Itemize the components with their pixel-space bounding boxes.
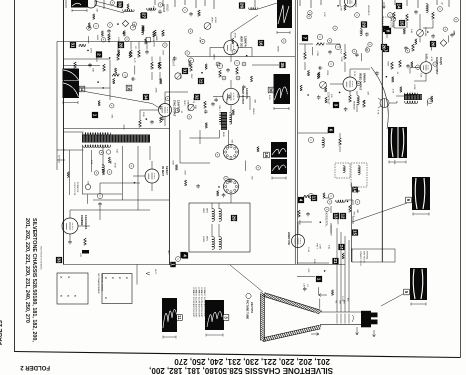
- resistor z83: [344, 5, 346, 11]
- node dot z10: [123, 33, 125, 35]
- ref circle z218: [175, 108, 179, 112]
- ref circle z118: [101, 38, 105, 42]
- ref circle z328: [368, 42, 372, 46]
- wcallout 34 near W2: [79, 86, 85, 92]
- capacitor z712: [222, 193, 226, 197]
- svg-text:2.2M: 2.2M: [340, 6, 342, 11]
- node dot z36: [363, 100, 365, 102]
- svg-text:HV RECT: HV RECT: [161, 166, 163, 177]
- callout 22v: [198, 78, 204, 84]
- cap C2: [145, 50, 149, 54]
- tube V9 sound if: [345, 0, 356, 7]
- svg-text:YEL: YEL: [335, 300, 337, 303]
- callout 13r: [383, 46, 389, 52]
- callout 27: [141, 12, 147, 18]
- capacitor z215: [214, 98, 218, 102]
- svg-text:4.7K: 4.7K: [376, 110, 378, 115]
- coil L6 in box: [358, 166, 360, 175]
- resistor R2 horiz: [79, 44, 86, 47]
- svg-text:CONNECT SCOPE ACROSS VERT: CONNECT SCOPE ACROSS VERT: [192, 287, 195, 318]
- callout 30: [117, 1, 123, 7]
- svg-text:100K: 100K: [160, 79, 162, 85]
- svg-text:36: 36: [269, 88, 274, 93]
- svg-text:24: 24: [339, 244, 344, 250]
- coil L3 vertical: [142, 26, 144, 35]
- hv rect tube V5: [145, 169, 159, 183]
- resistor R10b: [162, 30, 165, 36]
- pointer to W10: [381, 294, 403, 306]
- resistor z14: [129, 52, 131, 57]
- svg-text:R-75: R-75: [133, 58, 135, 64]
- waveform photo W9: [205, 300, 224, 330]
- resistor R6: [74, 62, 77, 68]
- svg-text:+422: +422: [167, 250, 169, 254]
- capacitor z321: [355, 53, 359, 57]
- resistor R10: [159, 62, 162, 69]
- svg-text:R-52: R-52: [353, 72, 355, 78]
- resistor R16: [84, 238, 87, 245]
- ref circle 16b: [108, 23, 113, 28]
- svg-text:HEIGHT: HEIGHT: [172, 57, 175, 67]
- svg-text:2.2M: 2.2M: [340, 57, 342, 62]
- callout 32b: [194, 94, 200, 100]
- callout 15s: [399, 20, 405, 26]
- ref circle z414: [391, 17, 395, 21]
- svg-text:6: 6: [328, 129, 333, 132]
- diamond test point TP1: [122, 20, 128, 26]
- CRT funnel bottom edge: [263, 325, 321, 342]
- waveform W6 bracket: [389, 161, 406, 164]
- svg-text:.0047: .0047: [236, 93, 238, 99]
- resistor R27: [406, 14, 409, 21]
- waveform photo W4: [274, 74, 291, 104]
- wire stub z1011: [134, 66, 136, 75]
- resistor R28: [432, 12, 435, 19]
- resistor z12: [101, 31, 103, 36]
- svg-text:220K: 220K: [275, 96, 277, 102]
- waveform W3 bracket: [277, 31, 290, 34]
- resistor Rvh: [198, 10, 201, 16]
- noise gate box: [146, 38, 151, 43]
- resistor z106: [115, 68, 117, 74]
- callout 29y: [231, 215, 237, 221]
- svg-text:6AQ5: 6AQ5: [439, 57, 443, 65]
- capacitor z227: [173, 56, 177, 60]
- svg-text:GRN: GRN: [339, 300, 341, 305]
- wire stub z96: [318, 287, 320, 294]
- ref circle p1: [129, 164, 134, 169]
- section divider double x296: [295, 0, 297, 264]
- CRT neck inner: [337, 314, 354, 324]
- svg-text:1: 1: [92, 114, 97, 117]
- callout 14s: [396, 3, 402, 9]
- wire b+ bus: [350, 183, 352, 262]
- svg-text:BLUE: BLUE: [222, 132, 224, 138]
- pilot lamp: [85, 184, 90, 189]
- wire y60 seg: [64, 58, 111, 60]
- vert output transformer T1: [221, 112, 227, 130]
- ref circle z715: [256, 166, 260, 170]
- svg-text:C-81: C-81: [303, 283, 305, 287]
- waveform W8 bracket: [163, 336, 176, 339]
- callout 24h: [338, 244, 344, 250]
- svg-text:1B3GT: 1B3GT: [165, 166, 169, 175]
- waveform W7 bracket: [413, 213, 429, 216]
- wire tube V2 leads: [140, 92, 188, 126]
- callout 2: [96, 51, 102, 57]
- wire video mesh: [299, 44, 345, 72]
- capacitor C16 black: [82, 250, 89, 254]
- wcallout 5 near W10: [404, 289, 410, 295]
- ref circle z711: [215, 153, 219, 157]
- svg-text:8: 8: [385, 30, 390, 33]
- resistor R25: [363, 100, 366, 107]
- wire mesh sync: [64, 57, 161, 101]
- resistor R23: [304, 52, 307, 59]
- resistor R26: [393, 12, 396, 19]
- node dot z239: [201, 72, 203, 74]
- resistor R29: [412, 44, 415, 51]
- svg-text:CONNECT SCOPE ACROSS VERT: CONNECT SCOPE ACROSS VERT: [197, 287, 200, 318]
- svg-text:35: 35: [280, 62, 285, 68]
- callout 4m: [182, 252, 188, 258]
- resistor z713: [175, 165, 177, 171]
- svg-text:4.7K: 4.7K: [95, 57, 97, 62]
- svg-text:33K: 33K: [92, 68, 94, 72]
- cap C4: [131, 77, 135, 81]
- callout 8s: [385, 28, 391, 34]
- svg-text:C-41: C-41: [410, 29, 412, 35]
- capacitor z97: [303, 287, 307, 291]
- wire speaker: [389, 96, 404, 103]
- waveform photo W2 upper: [63, 69, 80, 81]
- ref circle z21: [188, 29, 192, 33]
- top wire stubs: [66, 0, 449, 9]
- damper tube V6: [62, 218, 78, 234]
- svg-text:HOLD: HOLD: [214, 17, 216, 23]
- svg-text:R-52: R-52: [268, 95, 270, 101]
- coil Lp: [102, 165, 104, 172]
- coil L5 in box: [343, 166, 345, 173]
- svg-text:VERT: VERT: [183, 100, 185, 106]
- yoke horiz coils: [212, 237, 214, 250]
- resistor R9b: [154, 30, 157, 36]
- node dot z111: [109, 57, 111, 59]
- svg-text:33K: 33K: [254, 99, 256, 103]
- waveform W5 bracket: [272, 177, 286, 180]
- section divider vertical x169: [169, 41, 171, 265]
- CRT base pins: [371, 313, 378, 318]
- wire diag W3: [231, 3, 277, 33]
- bottom page border: [15, 352, 461, 358]
- cap C14: [404, 46, 408, 50]
- wire top box edge y65: [64, 64, 101, 66]
- ref circle 12h: [355, 200, 360, 205]
- ref circle s2: [388, 13, 393, 18]
- callout 4r: [383, 26, 389, 32]
- svg-text:201, 202, 220, 221, 230, 231,: 201, 202, 220, 221, 230, 231, 240, 250, …: [174, 357, 330, 366]
- audio output transformer T3: [404, 94, 422, 100]
- volume control: [417, 30, 424, 37]
- svg-text:14: 14: [396, 3, 401, 9]
- ref circle 33h: [308, 137, 313, 142]
- resistor R5: [117, 53, 120, 60]
- resistor R9: [151, 62, 154, 69]
- capacitor z42: [431, 34, 435, 38]
- resistor z412: [400, 87, 402, 93]
- wire bus y41: [57, 41, 170, 43]
- wcallout 16 near W5: [264, 152, 270, 158]
- svg-text:28: 28: [118, 42, 123, 48]
- ref circle 22: [217, 63, 222, 68]
- svg-text:11: 11: [311, 196, 316, 201]
- cap Cvh: [189, 12, 193, 16]
- callout 33b: [56, 257, 62, 263]
- svg-text:INTERLOCK: INTERLOCK: [76, 182, 78, 193]
- resistor z1017: [98, 100, 100, 106]
- callout 7v: [302, 35, 308, 41]
- svg-text:C-28: C-28: [426, 54, 428, 60]
- ref circle z417: [405, 49, 409, 53]
- waveform photo W7: [412, 177, 430, 210]
- tube V7 horiz osc: [292, 235, 305, 248]
- resistor z127: [118, 50, 120, 55]
- resistor z49: [431, 96, 433, 102]
- svg-text:TERMINAL BOARD: TERMINAL BOARD: [100, 274, 103, 292]
- svg-text:31: 31: [182, 68, 187, 74]
- callout 1c: [316, 276, 322, 282]
- resistor z66: [67, 172, 69, 178]
- control circle height: [175, 73, 181, 79]
- wire to W4: [252, 64, 279, 66]
- svg-text:1MEG: 1MEG: [213, 54, 215, 60]
- svg-text:4: 4: [182, 254, 187, 257]
- svg-text:33K: 33K: [179, 75, 181, 79]
- CRT wires down: [337, 228, 349, 312]
- resistor z117: [142, 26, 144, 31]
- capacitor z329: [344, 107, 348, 111]
- resistor R24: [349, 95, 352, 102]
- node dot z323: [339, 92, 341, 94]
- svg-text:1MEG: 1MEG: [277, 46, 279, 52]
- svg-text:-5-28-: -5-28-: [393, 160, 395, 166]
- svg-text:C-28: C-28: [341, 296, 343, 302]
- callout 28: [118, 42, 124, 48]
- speaker SP1: [380, 99, 389, 108]
- node dot z1013: [146, 118, 148, 120]
- ref circle s1: [355, 13, 360, 18]
- svg-text:330K: 330K: [142, 112, 144, 117]
- svg-text:34: 34: [80, 87, 85, 92]
- svg-text:21: 21: [333, 258, 338, 264]
- node dot z124: [117, 23, 119, 25]
- resistor z222: [205, 64, 207, 70]
- svg-text:PIN 7: PIN 7: [218, 106, 220, 112]
- wire x210 seg: [209, 48, 211, 57]
- resistor z76: [185, 180, 187, 186]
- svg-text:4.7K: 4.7K: [392, 89, 394, 94]
- svg-text:10K: 10K: [194, 105, 196, 109]
- wcallout 36 near W4: [268, 87, 274, 93]
- coil L10: [426, 4, 428, 13]
- resistor z431: [411, 62, 413, 68]
- sidebar title line: [24, 218, 37, 342]
- ref circle 23v: [328, 61, 333, 66]
- resistor z217: [232, 109, 234, 115]
- yoke box: [189, 203, 250, 252]
- wire 117 stub: [136, 265, 138, 285]
- callout 6h: [328, 127, 334, 133]
- ref circle z123: [163, 43, 167, 47]
- coil L4: [322, 138, 324, 148]
- ref circle z315: [328, 39, 332, 43]
- svg-text:3: 3: [333, 104, 338, 107]
- svg-text:PIN 7: PIN 7: [352, 212, 354, 218]
- ref circle 25: [234, 60, 239, 65]
- svg-text:PIN 7: PIN 7: [315, 243, 317, 249]
- node dot z421: [386, 76, 388, 78]
- wire stub z424: [387, 61, 389, 66]
- cap C8: [68, 240, 72, 244]
- ref circle z53: [325, 207, 329, 211]
- tube socket S2: [224, 179, 239, 194]
- svg-text:117V 60 CYCLE: 117V 60 CYCLE: [73, 182, 75, 196]
- svg-text:4: 4: [298, 199, 303, 202]
- svg-text:15: 15: [352, 230, 357, 236]
- capacitor z74: [228, 179, 232, 183]
- ref circle z219: [232, 50, 236, 54]
- svg-text:31: 31: [70, 42, 75, 48]
- callout small a: [352, 187, 358, 193]
- wire stub z47: [386, 31, 388, 38]
- capacitor z100: [159, 105, 163, 109]
- wire x100: [100, 183, 140, 220]
- svg-text:117V: 117V: [154, 269, 156, 274]
- resistor z317: [307, 70, 309, 76]
- ref circle s3: [438, 7, 443, 12]
- yoke vert coils: [212, 209, 214, 222]
- svg-text:R-52: R-52: [340, 49, 342, 55]
- wire lower box bottom y264: [64, 264, 346, 266]
- node dot A: [108, 41, 110, 43]
- wire stub z59: [337, 212, 339, 224]
- ref circle 5: [130, 25, 135, 30]
- wire stub z73: [244, 161, 246, 171]
- CRT funnel top edge: [262, 293, 322, 314]
- wire stub z65: [86, 195, 88, 204]
- callout 31: [70, 42, 76, 48]
- CRT base black: [361, 311, 371, 328]
- white box 18: [126, 85, 132, 91]
- tube V3 vert osc: [224, 40, 238, 54]
- svg-text:1: 1: [316, 278, 321, 281]
- resistor z122: [140, 13, 142, 18]
- resistor z311: [318, 72, 320, 78]
- capacitor C1: [107, 29, 111, 33]
- svg-text:4.7K: 4.7K: [313, 259, 315, 264]
- svg-text:7: 7: [302, 37, 307, 40]
- wire stub z93: [319, 299, 321, 309]
- tube V2 sync sep: [159, 104, 172, 117]
- coil L2b: [249, 8, 258, 10]
- pin circle d: [236, 76, 240, 80]
- resistor R17: [339, 138, 342, 145]
- schematic left border: [63, 0, 65, 265]
- svg-text:.0047: .0047: [183, 170, 185, 176]
- tube V10 audio out: [420, 62, 432, 74]
- resistor R31: [391, 62, 394, 69]
- resistor z79: [217, 190, 219, 196]
- node dot z63: [134, 182, 136, 184]
- node dot z104: [97, 81, 99, 83]
- tube V8 video out: [343, 77, 357, 91]
- waveform photo W8: [162, 298, 177, 332]
- wire power box top y128: [64, 128, 170, 130]
- svg-text:.0047: .0047: [162, 49, 164, 55]
- wire stub z129: [88, 36, 90, 43]
- svg-text:DAMPER: DAMPER: [80, 215, 83, 226]
- wire stub z224: [226, 98, 228, 104]
- resistor z310: [325, 86, 327, 92]
- cap C3: [88, 63, 92, 67]
- wire from W2: [85, 92, 159, 108]
- ref circle z238: [187, 115, 191, 119]
- right page border: [460, 0, 462, 358]
- svg-text:16: 16: [258, 40, 263, 46]
- svg-text:30: 30: [117, 2, 122, 8]
- resistor z90: [331, 290, 333, 295]
- resistor R3: [130, 50, 133, 57]
- svg-text:13: 13: [333, 213, 338, 219]
- ref circle z56: [328, 200, 332, 204]
- svg-text:+265: +265: [307, 268, 309, 272]
- node dot z230: [237, 44, 239, 46]
- resistor z1019: [158, 62, 160, 68]
- resistor z326: [300, 85, 302, 91]
- callout 12h: [340, 213, 346, 219]
- resistor z16: [145, 38, 147, 43]
- svg-text:VERT OSC: VERT OSC: [240, 36, 242, 48]
- cap C15: [406, 64, 410, 68]
- ref circle 14h: [328, 193, 333, 198]
- ref circle z121: [87, 26, 91, 30]
- wire horiz y276: [297, 263, 329, 277]
- wire stub z132: [97, 35, 99, 40]
- resistor z235: [205, 123, 207, 129]
- node dot z70: [218, 186, 220, 188]
- cap C9: [98, 202, 102, 206]
- wire stub z327: [312, 47, 314, 55]
- svg-text:33K: 33K: [109, 160, 111, 164]
- svg-text:.033: .033: [79, 253, 81, 257]
- svg-text:.0047: .0047: [453, 30, 455, 36]
- svg-text:29: 29: [361, 22, 366, 28]
- resistor R20: [349, 205, 352, 212]
- svg-text:PEAKING: PEAKING: [353, 101, 356, 110]
- ref circle z324: [352, 49, 356, 53]
- svg-text:HOLD: HOLD: [165, 4, 169, 11]
- callout 34b: [143, 94, 149, 100]
- resistor R8 horiz: [112, 74, 119, 77]
- CRT face edge: [261, 292, 265, 342]
- resistor R30: [399, 60, 402, 67]
- wire stub z48: [427, 101, 429, 106]
- waveform photo W5: [271, 142, 287, 158]
- callout 21c: [332, 258, 338, 264]
- ref circle z1016: [166, 96, 170, 100]
- cap C13: [414, 10, 418, 14]
- svg-text:4.7K: 4.7K: [90, 160, 92, 165]
